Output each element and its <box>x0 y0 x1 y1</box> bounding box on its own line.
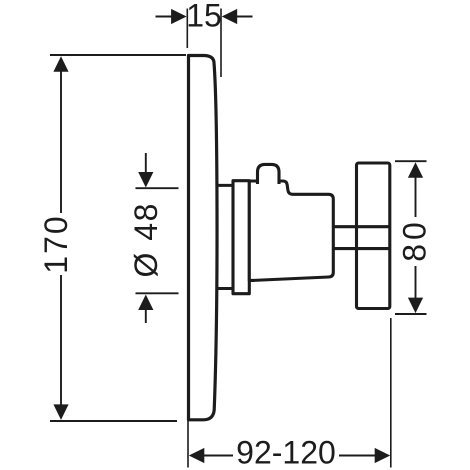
svg-text:170: 170 <box>38 214 74 273</box>
svg-text:15: 15 <box>186 0 222 34</box>
svg-text:80: 80 <box>397 218 433 262</box>
svg-text:92-120: 92-120 <box>236 435 336 470</box>
svg-text:Ø 48: Ø 48 <box>128 202 164 277</box>
